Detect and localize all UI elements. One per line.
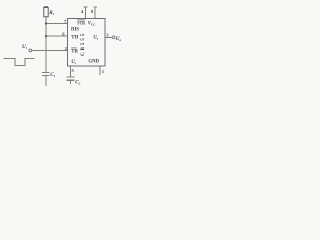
svg-text:DIS: DIS (71, 27, 79, 32)
svg-text:CB555: CB555 (80, 32, 86, 56)
svg-text:STR: STR (77, 22, 85, 27)
svg-text:VCC: VCC (88, 21, 97, 26)
svg-text:TH: TH (71, 36, 78, 41)
svg-text:Uo: Uo (93, 35, 98, 40)
svg-text:GND: GND (88, 59, 99, 64)
svg-text:TR: TR (71, 50, 78, 55)
svg-text:Uc: Uc (71, 60, 76, 65)
